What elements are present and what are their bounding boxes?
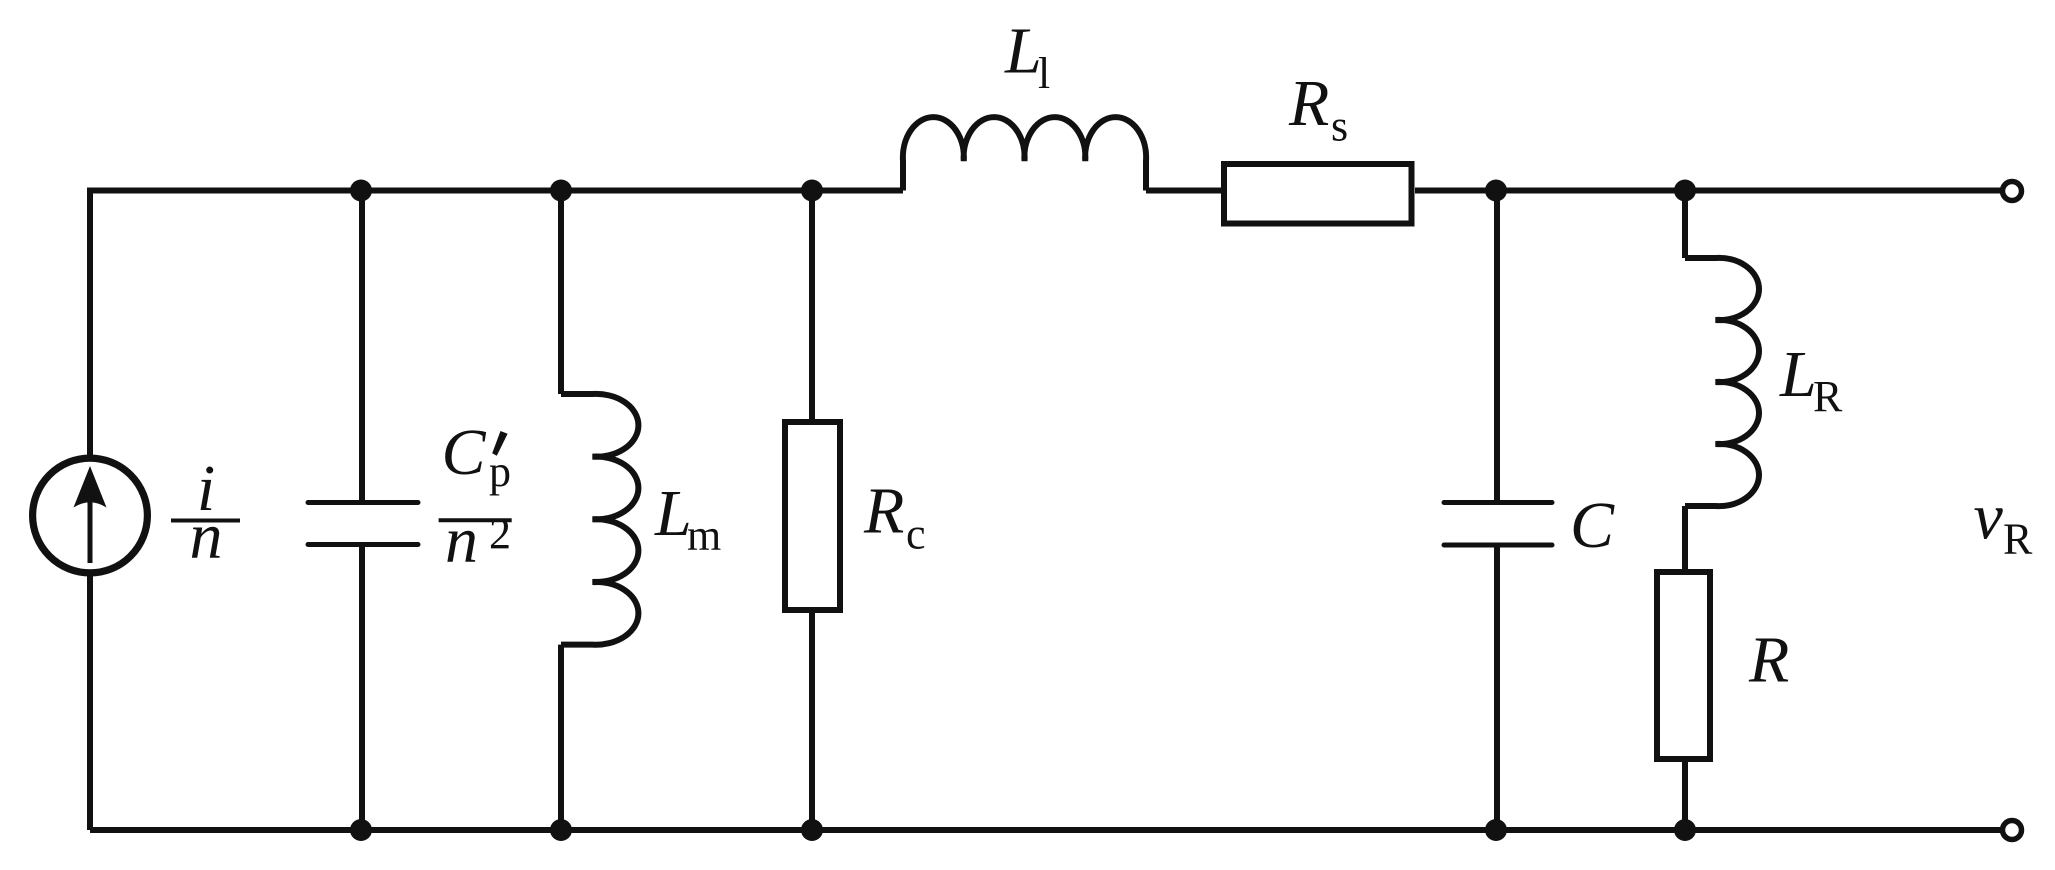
wire capacitor Cp branch top (359, 191, 365, 501)
svg-text:R: R (1813, 372, 1843, 421)
svg-text:s: s (1331, 102, 1348, 151)
label Rc (863, 475, 926, 559)
label Ll (1004, 15, 1050, 98)
label vR (1974, 481, 2034, 564)
svg-text:C: C (442, 416, 487, 489)
svg-text:v: v (1974, 481, 2004, 554)
terminal top right (2003, 182, 2022, 201)
resistor Rs box (1224, 164, 1412, 224)
current source I1 arrow (74, 466, 107, 563)
label LR (1779, 338, 1843, 421)
svg-text:L: L (1004, 15, 1042, 88)
wire resistor Rc branch top (809, 191, 815, 420)
svg-text:n: n (445, 504, 478, 577)
wire inductor Lm branch top (558, 191, 564, 395)
label Lm (654, 477, 721, 560)
junction dots bottom rail (350, 819, 1696, 841)
wire capacitor C branch bottom (1494, 548, 1500, 831)
terminal bottom right (2003, 821, 2022, 840)
svg-text:R: R (1288, 67, 1329, 140)
resistor R box (1657, 572, 1710, 759)
resistor Rc box (785, 422, 840, 610)
svg-text:l: l (1038, 49, 1050, 98)
svg-text:L: L (1779, 338, 1817, 411)
svg-text:m: m (687, 511, 721, 560)
wire top rail right segment (1415, 188, 2002, 194)
inductor LR coil (1685, 258, 1759, 506)
wire top rail left segment (90, 188, 903, 194)
wire resistor Rc branch bottom (809, 613, 815, 830)
current source I1 circle (33, 458, 148, 573)
fraction bar of i/n (171, 519, 240, 523)
wire between LR and R (1682, 506, 1688, 569)
capacitor C plates (1444, 503, 1552, 546)
label C (1570, 489, 1615, 562)
label Cp/n2 (442, 416, 512, 577)
wire inductor Lm branch bottom (558, 645, 564, 830)
svg-text:R: R (863, 475, 904, 548)
capacitor Cp plates (308, 503, 418, 545)
label R (1748, 624, 1789, 697)
inductor Ll coil on top rail (903, 117, 1146, 190)
svg-text:2: 2 (489, 509, 511, 558)
svg-text:n: n (190, 500, 223, 573)
wire bottom rail (90, 827, 2002, 833)
svg-text:R: R (1748, 624, 1789, 697)
svg-text:C: C (1570, 489, 1615, 562)
label i/n (190, 452, 223, 573)
junction dots top rail (350, 180, 1696, 202)
wire inductor LR branch top (1682, 191, 1688, 259)
svg-text:c: c (906, 510, 926, 559)
wire left branch vertical (87, 188, 93, 831)
wire capacitor C branch top (1494, 191, 1500, 501)
wire capacitor Cp branch bottom (359, 547, 365, 830)
wire top rail between Ll and Rs (1146, 188, 1221, 194)
svg-text:R: R (2003, 515, 2033, 564)
label Rs (1288, 67, 1348, 151)
svg-text:p: p (489, 447, 511, 496)
wire below resistor R (1682, 762, 1688, 830)
fraction bar of Cp/n2 (439, 518, 512, 522)
inductor Lm coil (561, 394, 638, 645)
